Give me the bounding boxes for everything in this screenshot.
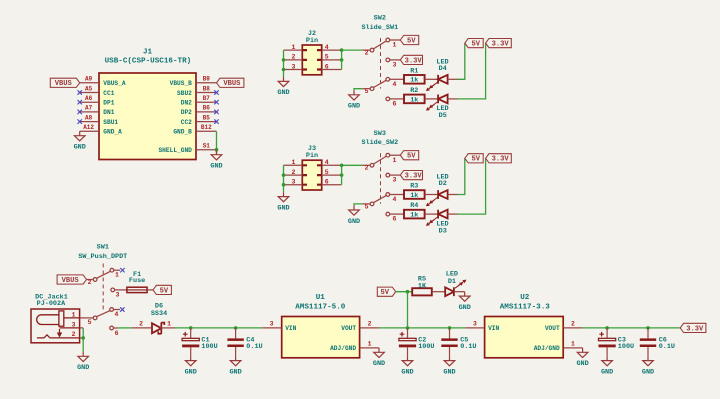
svg-text:0.1U: 0.1U [246, 343, 262, 351]
svg-text:1: 1 [571, 341, 575, 348]
wire [432, 291, 445, 293]
wire switch common 5 to GND [354, 89, 362, 91]
svg-text:2: 2 [139, 321, 143, 328]
wire to switch common [342, 49, 363, 51]
svg-text:3: 3 [393, 177, 397, 184]
switch SW3 Slide_SW2 [361, 130, 404, 223]
svg-text:VBUS_B: VBUS_B [170, 80, 193, 87]
pin A7 DN1 [80, 105, 115, 117]
svg-text:5V: 5V [471, 41, 480, 49]
svg-text:6: 6 [393, 216, 397, 223]
junction [282, 173, 286, 177]
svg-text:GND: GND [576, 360, 588, 368]
svg-text:1: 1 [167, 321, 171, 328]
capacitor C2 100U [399, 328, 435, 356]
svg-text:CC2: CC2 [181, 119, 192, 126]
svg-text:2: 2 [72, 331, 76, 338]
svg-text:A8: A8 [85, 114, 93, 121]
svg-text:VBUS: VBUS [55, 80, 73, 88]
svg-text:5: 5 [365, 88, 369, 95]
svg-text:GND: GND [373, 360, 385, 368]
svg-text:100U: 100U [618, 343, 634, 351]
junction [605, 326, 609, 330]
svg-text:A6: A6 [85, 95, 93, 102]
ground [349, 90, 360, 100]
no-connect [214, 119, 218, 123]
svg-text:3.3V: 3.3V [686, 325, 704, 333]
svg-text:DP2: DP2 [181, 109, 192, 116]
pin B5 CC2 [181, 114, 217, 126]
no-connect [120, 307, 124, 311]
resistor R3 [404, 183, 425, 200]
pin S1 SHELL_GND [158, 143, 216, 155]
svg-text:SW3: SW3 [374, 130, 386, 138]
no-connect [78, 119, 82, 123]
pin 3 VIN [465, 321, 484, 328]
svg-text:A7: A7 [85, 105, 93, 112]
resistor R2 [404, 87, 425, 104]
pin 1 ADJ/GND [563, 341, 582, 348]
wire [454, 291, 465, 293]
wire pins 4-5-6 [341, 50, 343, 69]
svg-text:GND: GND [401, 368, 413, 376]
svg-text:5: 5 [325, 54, 329, 61]
ground [230, 356, 241, 366]
wire rail to U1 [175, 327, 262, 329]
wire to 3.3V [458, 158, 486, 214]
junction [646, 326, 650, 330]
svg-text:GND: GND [443, 368, 455, 376]
svg-text:2: 2 [292, 54, 296, 61]
svg-text:PJ-002A: PJ-002A [37, 300, 66, 308]
svg-text:AMS1117-5.0: AMS1117-5.0 [295, 304, 346, 312]
global label 5V [400, 151, 418, 160]
svg-text:3.3V: 3.3V [492, 156, 510, 164]
pin A5 CC1 [80, 85, 115, 97]
svg-text:Pin: Pin [306, 37, 318, 45]
pin B9 VBUS_B [170, 76, 217, 88]
svg-text:3: 3 [292, 63, 296, 70]
svg-text:1: 1 [368, 341, 372, 348]
global label 3.3V [680, 323, 706, 332]
svg-text:B8: B8 [203, 85, 211, 92]
svg-text:R1: R1 [410, 67, 418, 75]
no-connect [78, 100, 82, 104]
no-connect [78, 110, 82, 114]
svg-text:100U: 100U [201, 343, 217, 351]
LED D5 [427, 95, 449, 121]
global label VBUS [50, 78, 79, 87]
svg-text:5V: 5V [407, 37, 416, 45]
svg-text:100U: 100U [418, 343, 434, 351]
LED D2 [427, 174, 449, 206]
svg-text:A5: A5 [85, 85, 93, 92]
global label 5V [400, 35, 418, 44]
svg-text:DN1: DN1 [103, 109, 114, 116]
svg-text:R2: R2 [410, 87, 418, 95]
svg-text:2: 2 [368, 321, 372, 328]
svg-text:1: 1 [115, 272, 119, 279]
svg-text:4: 4 [325, 159, 329, 166]
svg-text:6: 6 [325, 63, 329, 70]
pin 1 ADJ/GND [360, 341, 379, 348]
connector J2 Pin header 2x3 [302, 30, 321, 75]
svg-text:A12: A12 [83, 124, 94, 131]
resistor R4 [404, 202, 425, 219]
junction [189, 326, 193, 330]
wire GND_B to shell [216, 131, 218, 155]
wire to switch common [342, 164, 363, 166]
junction [406, 290, 410, 294]
regulator U1 AMS1117-5.0 [282, 294, 360, 358]
svg-text:1: 1 [72, 311, 76, 318]
svg-text:U2: U2 [520, 294, 530, 302]
junction [81, 336, 85, 340]
wire pins 4-5-6 [341, 165, 343, 184]
wire jack to GND [82, 328, 84, 352]
pin B12 GND_B [173, 124, 216, 136]
pin 6 [322, 63, 342, 70]
ground [278, 77, 289, 87]
svg-text:VIN: VIN [285, 325, 296, 332]
svg-text:0.1U: 0.1U [659, 343, 675, 351]
svg-text:S1: S1 [203, 143, 211, 150]
ground [74, 131, 85, 141]
svg-text:GND: GND [229, 368, 241, 376]
global label 5V [465, 39, 483, 48]
LED D3 [427, 210, 449, 236]
svg-text:VBUS_A: VBUS_A [103, 80, 126, 87]
fuse F1 [127, 271, 147, 292]
svg-text:5V: 5V [471, 156, 480, 164]
capacitor C4 0.1U [227, 328, 262, 356]
svg-text:J1: J1 [143, 48, 153, 56]
pin A12 GND_A [80, 124, 122, 136]
svg-text:SHELL_GND: SHELL_GND [158, 147, 192, 154]
global label 5V [465, 154, 483, 163]
wire [448, 213, 458, 215]
pin A9 VBUS_A [80, 76, 126, 88]
svg-text:GND: GND [642, 368, 654, 376]
ground [374, 348, 385, 358]
svg-text:R3: R3 [410, 183, 418, 191]
svg-text:2: 2 [571, 321, 575, 328]
svg-text:GND: GND [601, 368, 613, 376]
svg-text:R4: R4 [410, 202, 418, 210]
svg-text:D3: D3 [439, 227, 447, 235]
svg-text:ADJ/GND: ADJ/GND [330, 345, 356, 352]
LED D4 [427, 58, 449, 90]
svg-text:VBUS: VBUS [62, 277, 80, 285]
pin 4 [322, 44, 342, 51]
junction [406, 326, 410, 330]
svg-text:4: 4 [325, 44, 329, 51]
connector DC_Jack1 PJ-002A [31, 293, 80, 342]
svg-text:2: 2 [292, 169, 296, 176]
svg-text:GND_A: GND_A [103, 129, 122, 136]
wire [448, 78, 458, 80]
wire [425, 213, 439, 215]
global label 3.3V [400, 171, 422, 180]
pin 3 [284, 63, 303, 70]
svg-text:1k: 1k [410, 192, 418, 200]
svg-text:DN2: DN2 [181, 100, 192, 107]
wire switch common 5 to GND [354, 204, 362, 206]
svg-text:SBU1: SBU1 [103, 119, 118, 126]
svg-text:DP1: DP1 [103, 100, 114, 107]
svg-text:A9: A9 [85, 76, 93, 83]
svg-text:2: 2 [365, 165, 369, 172]
ground [459, 292, 470, 302]
regulator U2 AMS1117-3.3 [485, 294, 564, 358]
svg-text:1k: 1k [410, 77, 418, 85]
svg-text:1: 1 [393, 42, 397, 49]
pin 2 VOUT [360, 321, 379, 328]
ground [577, 348, 588, 358]
svg-text:B7: B7 [203, 95, 211, 102]
pin B6 DP2 [181, 105, 217, 117]
pin A8 SBU1 [80, 114, 119, 126]
svg-text:B6: B6 [203, 105, 211, 112]
ground [78, 352, 89, 362]
junction [215, 148, 219, 152]
svg-text:D5: D5 [439, 112, 447, 120]
svg-text:Pin: Pin [306, 152, 318, 160]
pin 4 [322, 159, 342, 166]
svg-text:3: 3 [292, 179, 296, 186]
wire [425, 194, 439, 196]
pin B8 SBU2 [177, 85, 216, 97]
wire U2 output rail [583, 327, 681, 329]
wire [448, 98, 458, 100]
no-connect [214, 100, 218, 104]
svg-text:1K: 1K [418, 282, 427, 290]
junction [282, 68, 286, 72]
svg-text:1: 1 [292, 159, 296, 166]
pin 3 VIN [262, 321, 281, 328]
svg-text:1: 1 [292, 44, 296, 51]
no-connect [78, 90, 82, 94]
global label 3.3V [486, 39, 512, 48]
no-connect [214, 90, 218, 94]
pin 3 [284, 179, 303, 186]
svg-text:VOUT: VOUT [545, 325, 560, 332]
resistor R5 1K [412, 276, 432, 296]
svg-text:1k: 1k [410, 96, 418, 104]
pin 2 [80, 337, 84, 339]
capacitor C6 0.1U [640, 328, 675, 356]
ground [349, 206, 360, 216]
pin 2 [284, 169, 303, 176]
wire to 5V [458, 158, 465, 194]
no-connect [120, 268, 124, 272]
wire 5V to R5 [396, 291, 413, 293]
svg-text:SW2: SW2 [374, 15, 386, 23]
svg-text:5: 5 [88, 319, 92, 326]
svg-text:5: 5 [365, 203, 369, 210]
svg-text:GND: GND [185, 368, 197, 376]
pin 5 [322, 169, 342, 176]
ground [185, 356, 196, 366]
svg-text:2: 2 [88, 279, 92, 286]
svg-text:GND: GND [459, 304, 471, 312]
svg-text:GND: GND [277, 204, 289, 212]
global label 3.3V [486, 154, 512, 163]
wire pins 1-2-3 to GND [283, 165, 285, 192]
svg-text:1: 1 [393, 157, 397, 164]
ground [444, 356, 455, 366]
svg-text:GND: GND [348, 103, 360, 111]
capacitor C1 100U [182, 328, 218, 356]
svg-text:GND_B: GND_B [173, 129, 192, 136]
global label 5V [377, 287, 395, 296]
svg-text:GND: GND [348, 218, 360, 226]
ground [402, 356, 413, 366]
svg-text:U1: U1 [316, 294, 326, 302]
junction [282, 183, 286, 187]
svg-text:Slide_SW1: Slide_SW1 [361, 24, 398, 32]
ground [602, 356, 613, 366]
svg-text:SBU2: SBU2 [177, 90, 192, 97]
svg-text:VIN: VIN [488, 325, 499, 332]
svg-text:3: 3 [270, 321, 274, 328]
global label VBUS [57, 275, 86, 284]
switch SW1 SW_Push_DPDT [78, 244, 127, 337]
LED D1 [445, 271, 465, 296]
junction [340, 164, 344, 168]
wire U1 output rail [379, 327, 465, 329]
connector J1 USB-C(CSP-USC16-TR) [99, 48, 196, 159]
svg-text:Fuse: Fuse [129, 277, 145, 285]
junction [340, 58, 344, 62]
svg-text:2: 2 [365, 50, 369, 57]
svg-text:SS34: SS34 [151, 310, 167, 318]
wire to 3.3V [458, 43, 486, 99]
switch SW2 Slide_SW1 [361, 15, 404, 108]
global label 3.3V [400, 55, 422, 64]
global label VBUS [217, 78, 244, 87]
svg-text:3: 3 [393, 62, 397, 69]
svg-text:ADJ/GND: ADJ/GND [534, 345, 560, 352]
svg-text:CC1: CC1 [103, 90, 114, 97]
svg-text:4: 4 [393, 196, 397, 203]
pin 5 [322, 54, 342, 61]
svg-text:D1: D1 [448, 278, 456, 286]
svg-text:6: 6 [115, 330, 119, 337]
svg-text:VBUS: VBUS [223, 80, 241, 88]
svg-text:SW1: SW1 [97, 244, 109, 252]
svg-text:Slide_SW2: Slide_SW2 [361, 139, 398, 147]
wire to 5V [458, 43, 465, 79]
wire [425, 98, 439, 100]
capacitor C5 0.1U [441, 328, 476, 356]
pin B7 DN2 [181, 95, 217, 107]
pin A6 DP1 [80, 95, 115, 107]
svg-text:3: 3 [473, 321, 477, 328]
junction [234, 326, 238, 330]
svg-text:3.3V: 3.3V [492, 41, 510, 49]
wire 5V tap down to rail [407, 292, 409, 328]
pin 1 wire to SW1 [80, 317, 94, 319]
wire [425, 78, 439, 80]
junction [340, 173, 344, 177]
svg-text:5V: 5V [160, 287, 169, 295]
svg-text:3.3V: 3.3V [405, 57, 423, 65]
wire SW1 pin6 to D6 [118, 327, 131, 329]
svg-text:4: 4 [115, 311, 119, 318]
svg-text:4: 4 [393, 81, 397, 88]
global label 5V [153, 285, 171, 294]
svg-text:D2: D2 [439, 180, 447, 188]
junction [340, 48, 344, 52]
pin 2 VOUT [563, 321, 582, 328]
svg-text:GND: GND [277, 89, 289, 97]
svg-text:D4: D4 [439, 65, 447, 73]
capacitor C3 100U [599, 328, 635, 356]
pin 6 [322, 179, 342, 186]
svg-text:3: 3 [116, 291, 120, 298]
junction [448, 326, 452, 330]
pin 3 [80, 327, 84, 329]
junction [282, 58, 286, 62]
ground [643, 356, 654, 366]
svg-text:5: 5 [325, 169, 329, 176]
pin 1 [284, 44, 303, 51]
svg-text:GND: GND [210, 163, 222, 171]
wire pins 1-2-3 to GND [283, 50, 285, 77]
svg-text:GND: GND [74, 144, 86, 152]
no-connect [214, 110, 218, 114]
svg-text:GND: GND [77, 364, 89, 372]
svg-text:3: 3 [72, 321, 76, 328]
svg-text:VOUT: VOUT [341, 325, 356, 332]
svg-text:B5: B5 [203, 114, 211, 121]
resistor R1 [404, 67, 425, 84]
pin 1 [284, 159, 303, 166]
ground [211, 150, 222, 160]
svg-text:1k: 1k [410, 212, 418, 220]
svg-text:5V: 5V [381, 289, 390, 297]
pin 2 [284, 54, 303, 61]
svg-text:B9: B9 [203, 76, 211, 83]
svg-text:USB-C(CSP-USC16-TR): USB-C(CSP-USC16-TR) [105, 58, 192, 66]
svg-text:0.1U: 0.1U [460, 343, 476, 351]
wire [147, 289, 153, 291]
ground [278, 192, 289, 202]
svg-text:6: 6 [393, 101, 397, 108]
diode D6 SS34 schottky [132, 303, 175, 335]
svg-text:6: 6 [325, 179, 329, 186]
wire [448, 194, 458, 196]
svg-text:5V: 5V [407, 153, 416, 161]
svg-text:B12: B12 [201, 124, 212, 131]
svg-text:3.3V: 3.3V [405, 173, 423, 181]
connector J3 Pin header 2x3 [302, 145, 321, 190]
svg-text:SW_Push_DPDT: SW_Push_DPDT [78, 253, 127, 261]
svg-text:AMS1117-3.3: AMS1117-3.3 [500, 304, 551, 312]
